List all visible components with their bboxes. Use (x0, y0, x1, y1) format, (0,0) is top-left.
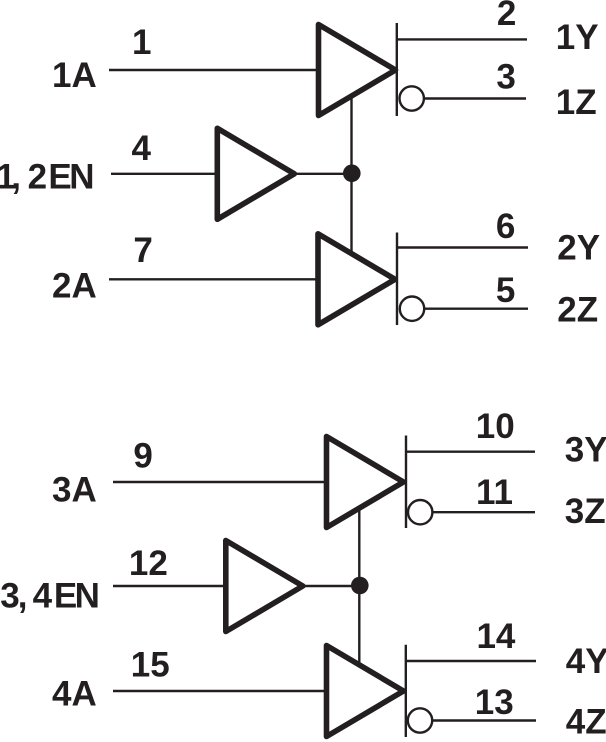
svg-text:7: 7 (133, 231, 152, 270)
svg-text:14: 14 (476, 617, 515, 656)
svg-text:10: 10 (476, 407, 515, 446)
svg-text:3Z: 3Z (565, 492, 606, 531)
svg-text:1A: 1A (52, 56, 97, 95)
svg-text:3,4EN: 3,4EN (0, 577, 100, 616)
svg-text:3Y: 3Y (565, 431, 606, 470)
svg-text:1: 1 (132, 23, 151, 62)
svg-text:2A: 2A (52, 267, 97, 306)
svg-text:6: 6 (496, 207, 515, 246)
svg-text:4Z: 4Z (566, 703, 606, 742)
svg-text:11: 11 (476, 473, 513, 512)
svg-text:12: 12 (129, 544, 168, 583)
svg-text:2: 2 (497, 0, 516, 33)
svg-text:1Z: 1Z (556, 83, 597, 122)
svg-text:4A: 4A (52, 675, 97, 714)
svg-text:2Z: 2Z (557, 291, 598, 330)
svg-text:1Y: 1Y (556, 18, 599, 57)
svg-text:2Y: 2Y (557, 228, 600, 267)
svg-text:4: 4 (132, 129, 152, 168)
svg-text:9: 9 (133, 436, 152, 475)
svg-text:15: 15 (131, 646, 170, 685)
svg-text:3A: 3A (52, 471, 97, 510)
svg-text:13: 13 (475, 683, 514, 722)
svg-text:5: 5 (496, 271, 515, 310)
svg-text:3: 3 (496, 58, 515, 97)
svg-text:4Y: 4Y (566, 642, 606, 681)
